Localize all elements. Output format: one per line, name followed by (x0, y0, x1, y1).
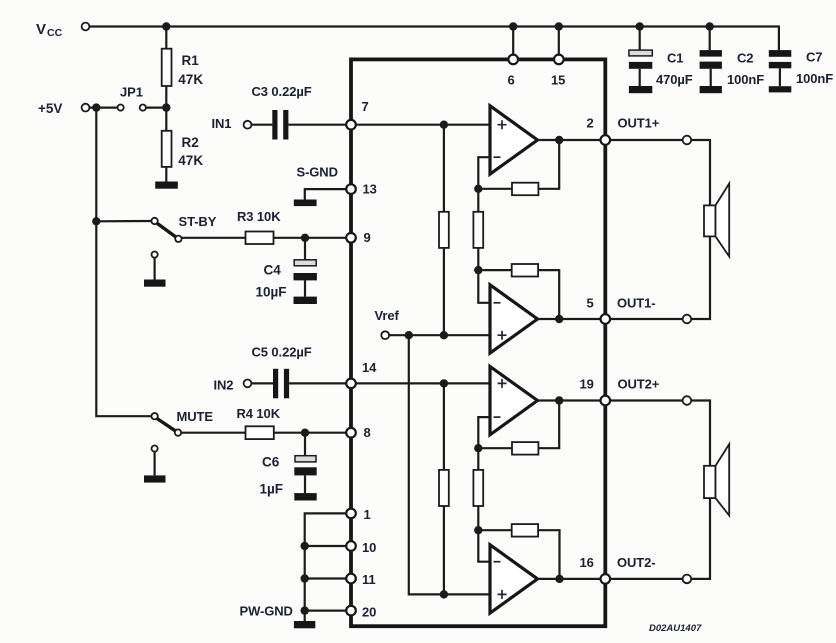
resistor R2 (162, 131, 172, 167)
op-amp U2B (OUT2-) (490, 545, 538, 613)
junction top rail / R1 (162, 22, 170, 30)
label U1A minus sign (494, 156, 501, 158)
svg-text:5: 5 (587, 296, 594, 311)
capacitor C1 positive plate (629, 50, 652, 56)
svg-text:1: 1 (364, 507, 371, 522)
junction rail A top / U1A input (440, 121, 448, 129)
speaker SP1 (704, 184, 729, 257)
svg-text:470µF: 470µF (656, 72, 693, 87)
wire U2B feedback resistor to output (538, 530, 559, 579)
wire rail A to Vref node (443, 248, 445, 335)
pin 5 (601, 314, 611, 324)
label U2B plus sign (498, 590, 507, 599)
wire C2 bottom lead (710, 69, 712, 86)
svg-text:S-GND: S-GND (297, 165, 338, 180)
junction U1A output / feedback (555, 136, 563, 144)
junction +5V rail to ST-BY branch (92, 217, 100, 225)
svg-text:16: 16 (580, 555, 594, 570)
op-amp U2A (OUT2+) (490, 367, 538, 435)
jumper JP1 left contact (118, 105, 124, 111)
label U1B minus sign (494, 302, 501, 304)
ground below MUTE switch (144, 475, 166, 482)
wire U1B feedback node to resistor (478, 269, 511, 271)
svg-text:OUT1-: OUT1- (617, 296, 656, 311)
switch MUTE lever (157, 419, 176, 432)
wire U2A inverting input L (478, 417, 490, 448)
capacitor C7 bottom plate (769, 62, 792, 68)
wire branch to ST-BY switch (96, 220, 151, 223)
pin 13 (346, 184, 356, 194)
pin 15 (554, 55, 564, 65)
wire speaker SP1 bottom to pin 5 (610, 236, 710, 319)
wire rail B lower to U2B feedback node (477, 506, 479, 530)
wire C1 bottom lead (639, 69, 641, 86)
pin 10 (346, 541, 356, 551)
junction Vref / vertical Vref rail (405, 331, 413, 339)
resistor U1B feedback (512, 264, 538, 277)
capacitor C2 bottom plate (700, 62, 722, 69)
wire R1 bottom lead (165, 86, 167, 108)
resistor R1 (162, 49, 172, 86)
svg-text:JP1: JP1 (120, 85, 143, 100)
svg-text:1µF: 1µF (260, 482, 284, 497)
terminal IN2 (244, 380, 252, 388)
terminal +5V (82, 104, 90, 112)
junction top rail / pin6 stub (509, 22, 517, 30)
svg-text:R3 10K: R3 10K (237, 209, 281, 224)
wire pin13 to ground (305, 189, 347, 199)
wire VCC top rail (89, 27, 779, 51)
svg-text:14: 14 (362, 360, 377, 375)
ground below C1 (629, 86, 652, 93)
svg-text:47K: 47K (178, 153, 203, 168)
switch MUTE ground contact (152, 446, 158, 452)
wire bus to pin 10 (305, 545, 347, 547)
label U1B plus sign (498, 331, 507, 340)
svg-text:10µF: 10µF (256, 285, 287, 300)
ground below C7 (769, 86, 792, 92)
node VCC label (36, 21, 63, 39)
pin 20 (346, 606, 356, 616)
svg-text:8: 8 (364, 425, 371, 440)
pin 14 (346, 379, 356, 389)
wire Vref vertical rail down to U2B input (409, 335, 490, 594)
svg-text:OUT1+: OUT1+ (618, 116, 660, 131)
label U1A plus sign (498, 120, 507, 129)
junction rail A lower / U2A input (440, 379, 448, 387)
wire IN2 to C5 (251, 382, 273, 384)
wire pin19 to speaker SP2 top (610, 401, 710, 466)
svg-text:Vref: Vref (375, 308, 400, 323)
wire U2A feedback resistor to output (538, 401, 559, 449)
ground below C4 (294, 297, 317, 304)
wire pin6 stub from VCC rail (512, 27, 514, 60)
junction U2B output / feedback (555, 575, 563, 583)
resistor R4 (246, 426, 274, 439)
label U2A minus sign (494, 416, 501, 418)
label U2B minus sign (494, 561, 501, 563)
op-amp U1B (OUT1-) (490, 285, 538, 353)
junction bus / pin11 (301, 574, 309, 582)
wire C4 bottom lead (304, 280, 306, 296)
svg-text:6: 6 (508, 73, 515, 88)
svg-text:R4 10K: R4 10K (237, 406, 281, 421)
resistor U2A feedback (512, 442, 538, 455)
wire U1B output to pin 5 (538, 318, 606, 320)
switch ST-BY ground contact (152, 252, 158, 258)
svg-text:OUT2+: OUT2+ (618, 377, 660, 392)
wire rail B lower stub (477, 448, 479, 470)
resistor rail B upper (473, 212, 483, 248)
resistor U1A feedback (512, 183, 538, 196)
resistor R3 (246, 232, 274, 245)
wire ground bus pins 1-10-11-20 (305, 513, 347, 621)
wire rail A lower segment (443, 383, 445, 470)
switch ST-BY throw contact (175, 236, 181, 242)
speaker SP2 (704, 444, 729, 515)
svg-text:C3 0.22µF: C3 0.22µF (252, 84, 312, 99)
junction pin8 node / C6 tap (301, 429, 309, 437)
wire C6 bottom lead (304, 475, 306, 493)
capacitor C2 top plate (700, 50, 722, 57)
wire MUTE ground lead (154, 452, 156, 476)
wire R2 top lead (165, 108, 167, 131)
svg-text:C4: C4 (264, 263, 282, 278)
switch MUTE pivot contact (151, 413, 157, 419)
resistor rail A lower (439, 470, 449, 506)
wire speaker SP2 bottom to pin 16 (610, 498, 710, 579)
resistor rail B lower (473, 470, 483, 506)
junction U2A feedback node (474, 444, 482, 452)
resistor U2B feedback (512, 524, 538, 537)
junction top rail / C2 (706, 22, 714, 30)
junction top rail / pin15 stub (555, 22, 563, 30)
svg-text:MUTE: MUTE (177, 409, 214, 424)
wire pin15 stub from VCC rail (558, 27, 560, 60)
wire +5V to rail junction (89, 106, 117, 108)
capacitor C7 top plate (769, 50, 792, 57)
pin 16 (601, 574, 611, 584)
junction Vref rail / rail A lower at U2B input (440, 590, 448, 598)
wire U2B inverting input L (478, 530, 490, 562)
svg-text:100nF: 100nF (727, 72, 764, 87)
wire rail B upper stub (477, 189, 479, 212)
wire U1A inverting input L (478, 157, 490, 189)
ground S-GND bar (294, 200, 317, 207)
wire U2B output to pin 16 (538, 578, 606, 580)
wire U1B feedback resistor to output (538, 270, 559, 319)
wire U2A output to pin 19 (538, 399, 606, 401)
junction bus / pin20 (301, 606, 309, 614)
junction U2A output / feedback (555, 396, 563, 404)
capacitor C6 positive plate (295, 456, 316, 462)
terminal IN1 (244, 121, 252, 129)
pin 19 (601, 396, 611, 406)
svg-text:D02AU1407: D02AU1407 (649, 623, 702, 634)
svg-text:C7: C7 (806, 50, 822, 65)
svg-text:+5V: +5V (38, 101, 62, 116)
wire U1B inverting input L (478, 270, 490, 303)
capacitor C4 positive plate (294, 260, 316, 266)
wire U2B feedback node to resistor (478, 529, 511, 531)
wire pin2 to speaker SP1 top (610, 140, 710, 205)
svg-text:7: 7 (362, 99, 369, 114)
wire pin7 to op-amp U1A non-inverting input (351, 124, 490, 126)
junction U1B output / feedback (555, 315, 563, 323)
wire JP1 to R1/R2 node (146, 106, 166, 108)
terminal VCC (82, 23, 90, 31)
wire C4 top lead (304, 238, 306, 260)
pin 8 (346, 428, 356, 438)
junction R1/R2 divider node (162, 103, 170, 111)
wire switch to R3 (182, 237, 246, 239)
wire switch to R4 (181, 432, 245, 434)
svg-text:47K: 47K (178, 72, 203, 87)
junction top rail / C1 (636, 22, 644, 30)
ground below C2 (700, 86, 722, 93)
wire +5V vertical rail (96, 108, 151, 417)
svg-text:OUT2-: OUT2- (617, 555, 656, 570)
svg-text:C2: C2 (737, 51, 753, 66)
svg-text:13: 13 (363, 182, 377, 197)
capacitor C4 negative plate (294, 273, 317, 280)
junction Vref / rail A (440, 331, 448, 339)
junction bus / pin10 (301, 542, 309, 550)
junction pin9 node / C4 tap (301, 234, 309, 242)
svg-text:PW-GND: PW-GND (240, 604, 293, 619)
wire C3 to pin 7 (288, 124, 346, 126)
svg-text:11: 11 (362, 572, 376, 587)
capacitor C5 left plate (273, 369, 278, 399)
svg-text:R1: R1 (182, 53, 200, 68)
pin 1 (346, 509, 356, 519)
terminal OUT2- open circle (683, 575, 692, 584)
svg-text:C6: C6 (262, 455, 280, 470)
op-amp IC body (power amplifier) (351, 59, 605, 626)
svg-text:2: 2 (587, 116, 594, 131)
wire rail A upper segment (443, 125, 445, 212)
pin 9 (346, 233, 356, 243)
wire pin14 to op-amp U2A non-inverting input (351, 382, 490, 384)
junction U2B feedback node (474, 526, 482, 534)
ground below R2 (155, 182, 178, 189)
svg-text:IN1: IN1 (212, 116, 232, 131)
wire ST-BY ground lead (154, 258, 156, 280)
capacitor C5 right plate (284, 369, 289, 399)
pin 2 (601, 135, 611, 145)
svg-text:ST-BY: ST-BY (179, 214, 217, 229)
switch MUTE throw contact (175, 429, 181, 435)
wire U2A feedback node to resistor (478, 447, 512, 449)
svg-text:10: 10 (362, 540, 376, 555)
jumper JP1 right contact (140, 105, 146, 111)
switch ST-BY pivot contact (151, 218, 157, 224)
svg-text:CC: CC (47, 27, 63, 39)
terminal OUT1- open circle (683, 315, 692, 324)
pin 6 (508, 55, 518, 65)
wire IN1 to C3 (251, 124, 272, 126)
svg-text:C5 0.22µF: C5 0.22µF (252, 345, 312, 360)
op-amp U1A (OUT1+) (490, 106, 538, 174)
wire C6 top lead (304, 433, 306, 456)
svg-text:20: 20 (362, 605, 376, 620)
wire R4 to pin 8 (274, 432, 347, 434)
wire R2 bottom lead (165, 167, 167, 182)
terminal Vref (381, 331, 389, 339)
junction U1A feedback node (474, 185, 482, 193)
ground below ST-BY switch (144, 280, 166, 287)
svg-text:IN2: IN2 (214, 378, 234, 393)
wire C7 bottom lead (779, 68, 781, 86)
resistor rail A upper (439, 212, 449, 248)
terminal OUT1+ open circle (683, 136, 692, 145)
wire C1 top lead (639, 27, 641, 51)
switch ST-BY lever (157, 223, 176, 237)
label U2A plus sign (498, 379, 507, 388)
pin 7 (346, 120, 356, 130)
wire bus to pin 20 (305, 609, 347, 611)
wire C2 top lead (709, 27, 711, 51)
wire feedback resistor to output (538, 140, 559, 189)
wire R3 to pin 9 (274, 237, 347, 239)
junction +5V rail tap (92, 103, 100, 111)
svg-text:9: 9 (364, 230, 371, 245)
wire feedback node to resistor (478, 188, 512, 190)
wire rail B to U1B feedback node (477, 248, 479, 270)
svg-text:C1: C1 (667, 51, 683, 66)
wire R1 top lead (165, 27, 167, 49)
capacitor C3 left plate (272, 110, 277, 140)
svg-text:R2: R2 (182, 135, 199, 150)
capacitor C6 negative plate (294, 467, 316, 475)
wire Vref to U1B non-inverting input (389, 334, 490, 336)
ground PW-GND bar (294, 621, 315, 628)
svg-text:15: 15 (551, 73, 565, 88)
wire C5 to pin 14 (289, 382, 346, 384)
svg-text:19: 19 (580, 377, 594, 392)
capacitor C3 right plate (283, 110, 288, 140)
capacitor C1 negative plate (629, 62, 652, 69)
svg-text:V: V (36, 21, 46, 38)
ground below C6 (294, 493, 316, 500)
svg-text:100nF: 100nF (796, 71, 833, 86)
pin 11 (346, 574, 356, 584)
terminal OUT2+ open circle (683, 396, 692, 405)
wire rail A lower to U2B input row (443, 506, 445, 594)
junction U1B feedback node (474, 266, 482, 274)
wire U1A output to pin 2 (538, 139, 606, 141)
wire bus to pin 11 (305, 577, 347, 579)
